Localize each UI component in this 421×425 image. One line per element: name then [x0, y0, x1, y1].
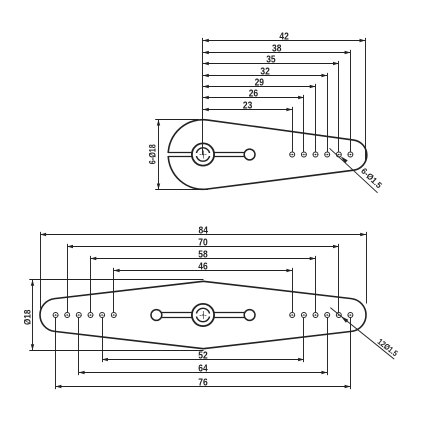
- ext line hole 26L dn: [102, 318, 104, 362]
- svg-text:35: 35: [266, 55, 276, 66]
- top arm hole 1 (23mm): [290, 152, 295, 157]
- top arm hole 6 (38mm): [348, 152, 353, 157]
- top slot clearance cut (inner circle): [195, 153, 211, 156]
- bottom slot right circle: [244, 310, 255, 321]
- top hub center mark: [200, 151, 207, 159]
- bottom arm left hole 5: [65, 313, 70, 318]
- svg-text:Ø18: Ø18: [23, 310, 33, 325]
- dimension 23 (top arm): [203, 101, 292, 112]
- ext line hole 35L: [67, 244, 69, 312]
- ext line hole 23R: [292, 268, 294, 312]
- ext line hole 29R: [315, 256, 317, 312]
- dimension 32 (top arm): [203, 67, 327, 78]
- extension line bottom of disc: [155, 189, 208, 191]
- label 12Ø1.5: [376, 337, 400, 358]
- svg-text:84: 84: [199, 226, 209, 237]
- bottom arm left hole 6: [53, 313, 58, 318]
- dimension 35 (top arm): [203, 55, 339, 66]
- top hub center extension line: [202, 38, 204, 155]
- top servo arm outline: [168, 120, 367, 190]
- bottom arm left hole 3: [88, 313, 93, 318]
- bottom slot left circle: [151, 310, 162, 321]
- svg-text:46: 46: [198, 262, 208, 273]
- svg-text:29: 29: [255, 78, 265, 89]
- extension line left tip: [40, 232, 42, 309]
- svg-text:6-Ø18: 6-Ø18: [147, 144, 157, 164]
- svg-text:70: 70: [198, 238, 208, 249]
- extension line Ø18 bottom: [29, 350, 203, 352]
- extension line top of disc: [155, 119, 199, 121]
- dimension 26 (top arm): [203, 89, 304, 100]
- extension line arm tip (top arm): [365, 38, 367, 161]
- top hub inner circle: [196, 148, 209, 161]
- bottom arm left hole 4: [76, 313, 81, 318]
- top arm hole 4 (32mm): [325, 152, 330, 157]
- dimension 52: [102, 351, 304, 362]
- svg-text:64: 64: [198, 364, 208, 375]
- dimension 38 (top arm): [203, 44, 350, 55]
- ext line hole 32L dn: [78, 318, 80, 375]
- label 6-Ø1.5: [359, 166, 384, 191]
- bottom arm right hole 6: [348, 313, 353, 318]
- bottom arm left hole 2: [100, 313, 105, 318]
- dimension 42 (top arm): [203, 32, 365, 43]
- dimension 58: [90, 250, 315, 261]
- top slot end circle: [244, 149, 255, 160]
- dimension 6-Ø18 line: [157, 120, 160, 190]
- ext line hole 38R dn: [350, 318, 352, 389]
- top arm hole 2 (26mm): [301, 152, 306, 157]
- bottom double servo arm outline: [40, 281, 366, 348]
- bottom arm right hole 2: [301, 313, 306, 318]
- bottom arm left hole 1: [111, 313, 116, 318]
- leader arrow 12Ø1.5: [341, 316, 348, 323]
- extension line hole 1 (top arm): [292, 107, 294, 152]
- dimension Ø18 line: [31, 280, 34, 350]
- svg-text:52: 52: [198, 351, 208, 362]
- bottom arm right hole 5: [336, 313, 341, 318]
- bottom arm right hole 1: [290, 313, 295, 318]
- svg-text:42: 42: [279, 32, 289, 43]
- svg-text:32: 32: [260, 67, 270, 78]
- ext line hole 35R: [338, 244, 340, 312]
- leader arrow 6-Ø1.5: [341, 156, 348, 163]
- svg-text:26: 26: [249, 89, 259, 100]
- dimension 84: [40, 226, 366, 237]
- dimension 46: [114, 262, 292, 273]
- extension line hole 3 (top arm): [315, 84, 317, 152]
- top arm hole 5 (35mm): [336, 152, 341, 157]
- svg-text:23: 23: [243, 101, 253, 112]
- bottom hub inner circle: [196, 308, 209, 321]
- bottom arm right hole 3: [313, 313, 318, 318]
- svg-text:76: 76: [198, 378, 208, 389]
- dimension 64: [79, 364, 327, 375]
- ext line hole 32R dn: [327, 318, 329, 375]
- extension line hole 2 (top arm): [303, 95, 305, 152]
- bottom slot clearance cut (inner circle): [195, 314, 211, 317]
- extension line hole 5 (top arm): [338, 61, 340, 152]
- svg-text:58: 58: [198, 250, 208, 261]
- extension line hole 4 (top arm): [327, 73, 329, 152]
- extension line right tip: [366, 232, 368, 304]
- extension line hole 6 (top arm): [350, 50, 352, 152]
- dimension 70: [67, 238, 339, 249]
- bottom arm right hole 4: [325, 313, 330, 318]
- top hub outer circle: [192, 143, 214, 165]
- top slot upper line: [168, 152, 244, 154]
- leader line 12Ø1.5: [330, 308, 394, 360]
- ext line hole 29L: [90, 256, 92, 312]
- bottom hub outer circle: [192, 304, 214, 326]
- label 6-Ø18: [147, 144, 157, 164]
- ext line hole 26R dn: [303, 318, 305, 362]
- dimension 76: [56, 378, 351, 389]
- dimension 29 (top arm): [203, 78, 316, 89]
- leader line 6-Ø1.5: [330, 148, 378, 193]
- svg-text:38: 38: [272, 44, 282, 55]
- bottom slot upper line: [161, 312, 244, 314]
- top slot clearance cut (left edge): [166, 153, 172, 156]
- label Ø18: [23, 310, 33, 325]
- bottom hub center mark: [200, 311, 207, 319]
- ext line hole 23L: [113, 268, 115, 312]
- top arm hole 3 (29mm): [313, 152, 318, 157]
- bottom slot lower line: [161, 317, 244, 319]
- extension line Ø18 top: [29, 279, 203, 281]
- top slot lower line: [168, 156, 244, 158]
- ext line hole 38L dn: [55, 318, 57, 389]
